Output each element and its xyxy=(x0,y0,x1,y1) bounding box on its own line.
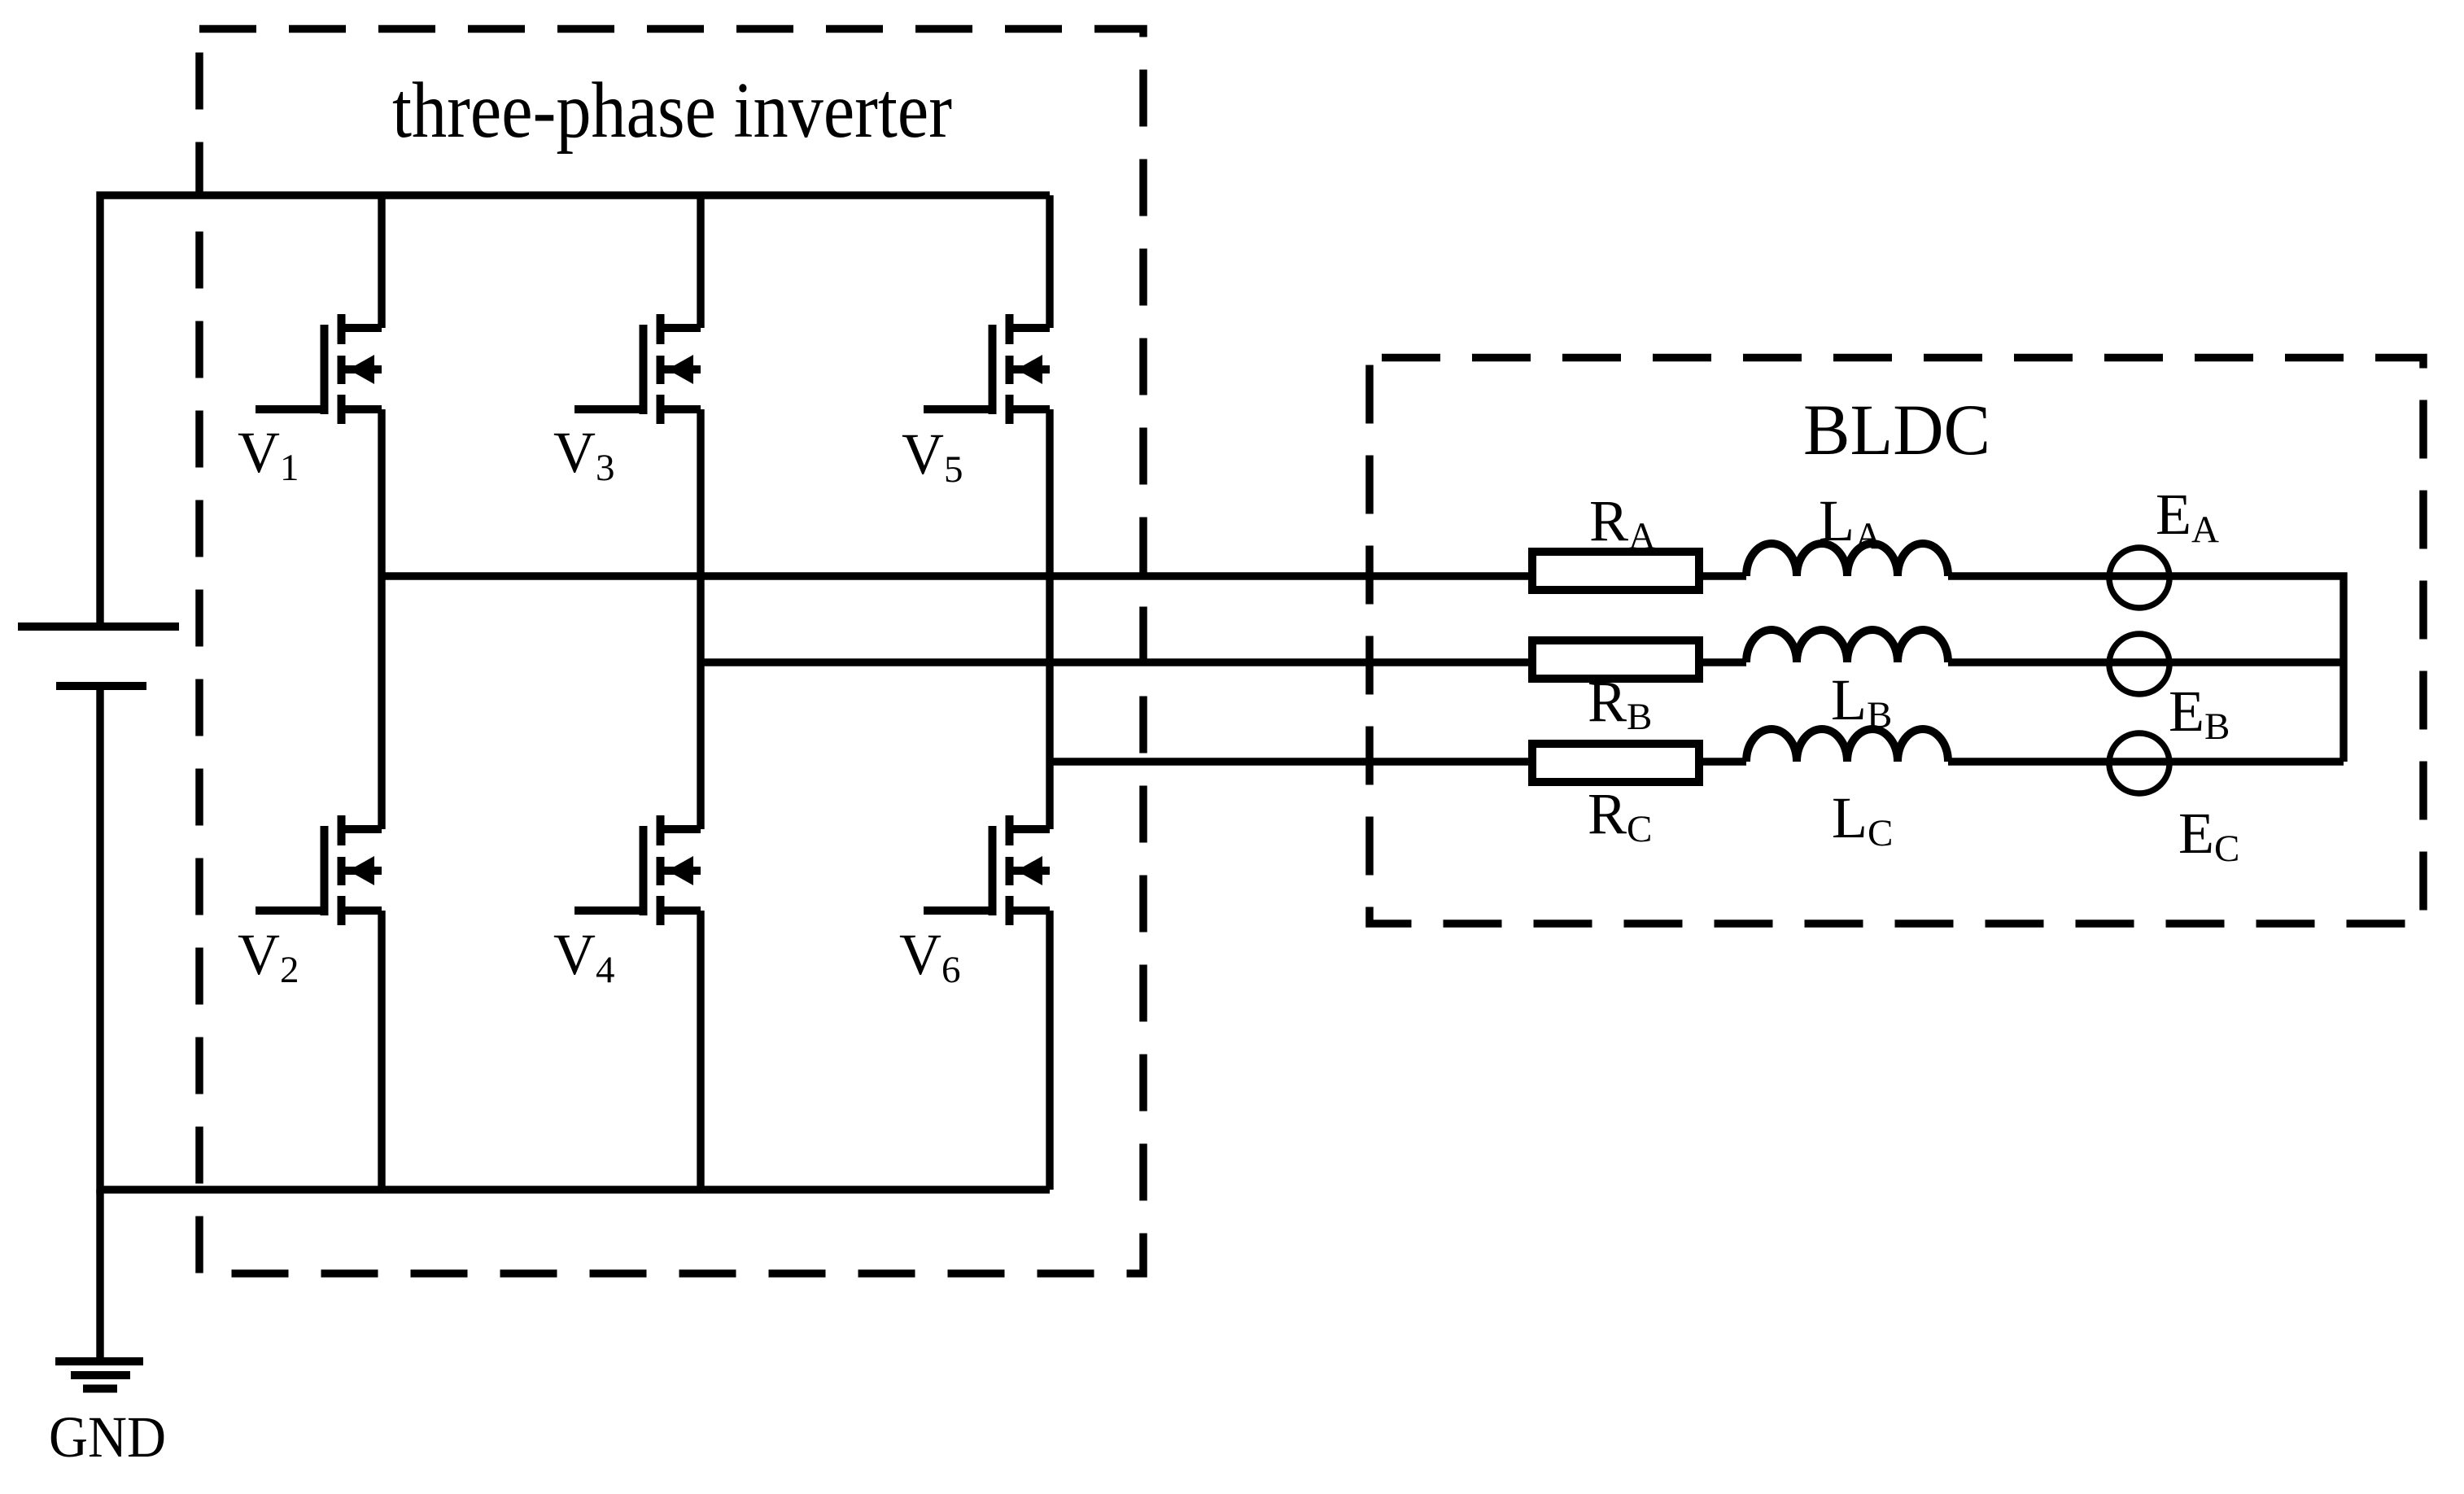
battery positive plate (long) xyxy=(18,622,179,631)
svg-text:BLDC: BLDC xyxy=(1803,391,1990,470)
transistor V4 xyxy=(574,815,701,925)
wire: phase B from node B to motor xyxy=(701,658,1746,666)
svg-text:GND: GND xyxy=(49,1404,166,1470)
three-phase inverter dashed box xyxy=(199,29,1143,1274)
resistor RC body xyxy=(1532,744,1699,782)
wire: leg 2 mid (V3 source to V4 drain), node B xyxy=(697,409,704,829)
wire: leg 3 source (V6 to - bus) xyxy=(1046,911,1053,1190)
BLDC dashed box xyxy=(1370,358,2423,924)
wire: leg 1 mid (V1 source to V2 drain), node A xyxy=(378,409,385,829)
resistor RB body xyxy=(1532,640,1699,679)
svg-text:V4: V4 xyxy=(553,922,615,991)
inductor LB coil xyxy=(1746,630,1948,662)
svg-text:V5: V5 xyxy=(902,422,963,491)
svg-text:LA: LA xyxy=(1819,488,1882,557)
wire: phase B right lead to neutral xyxy=(1948,658,2344,666)
transistor V1 xyxy=(256,314,382,424)
wire: leg 2 source (V4 to - bus) xyxy=(697,911,704,1190)
svg-text:V2: V2 xyxy=(238,922,299,991)
wire: DC negative bus (battery - riser and bottom rail) xyxy=(100,686,1050,1190)
back-EMF source EC circle xyxy=(2109,733,2169,793)
wire: leg 1 drain (V1 to + bus) xyxy=(378,195,385,328)
transistor V3 xyxy=(574,314,701,424)
ground symbol bars xyxy=(55,1357,143,1365)
wire: leg 2 drain (V3 to + bus) xyxy=(697,195,704,328)
wire: leg 1 source (V2 to - bus) xyxy=(378,911,385,1190)
wire: leg 3 mid (V5 source to V6 drain), node C xyxy=(1046,409,1053,829)
svg-text:RA: RA xyxy=(1589,488,1656,557)
inductor LA coil xyxy=(1746,544,1948,576)
svg-text:three-phase inverter: three-phase inverter xyxy=(392,67,952,155)
wire: phase C right lead to neutral xyxy=(1948,758,2344,765)
back-EMF source EB circle xyxy=(2109,634,2169,694)
transistor V6 xyxy=(924,815,1050,925)
wire: phase A right lead and neutral vertical xyxy=(1948,576,2344,762)
svg-text:V6: V6 xyxy=(899,922,961,991)
svg-text:EB: EB xyxy=(2169,679,2230,748)
svg-text:LB: LB xyxy=(1831,667,1892,736)
wire: DC positive bus (battery + riser and top rail) xyxy=(100,195,1050,627)
transistor V2 xyxy=(256,815,382,925)
resistor RA body xyxy=(1532,552,1699,590)
transistor V5 xyxy=(924,314,1050,424)
svg-text:EA: EA xyxy=(2156,482,2219,551)
wire: phase C from node C to motor xyxy=(1050,758,1746,765)
back-EMF source EA circle xyxy=(2109,548,2169,608)
inductor LC coil xyxy=(1746,729,1948,762)
svg-text:RC: RC xyxy=(1588,781,1652,850)
svg-text:EC: EC xyxy=(2178,801,2239,870)
wire: leg 3 drain (V5 to + bus) xyxy=(1046,195,1053,328)
svg-text:V3: V3 xyxy=(553,420,615,489)
svg-text:LC: LC xyxy=(1832,785,1893,854)
svg-text:V1: V1 xyxy=(238,420,299,489)
wire: phase A from node A to motor xyxy=(382,572,1746,579)
wire: GND stem xyxy=(96,1190,103,1361)
battery negative plate (short) xyxy=(56,682,146,690)
